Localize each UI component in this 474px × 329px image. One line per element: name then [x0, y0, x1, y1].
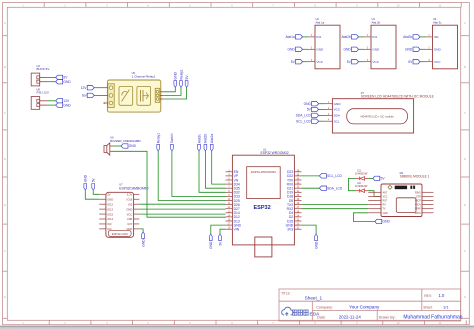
svg-text:F: F — [4, 249, 6, 253]
wire GND port below ESP32 right — [302, 225, 317, 234]
svg-text:IO0: IO0 — [128, 202, 133, 206]
svg-text:5V: 5V — [107, 193, 110, 197]
svg-text:GND: GND — [434, 48, 442, 52]
net flag SCL_LCD at LCD — [312, 119, 319, 123]
svg-text:1N4002W: 1N4002W — [355, 184, 368, 188]
svg-text:B: B — [464, 65, 466, 69]
wire CAM GND down to port — [139, 229, 143, 232]
net flag GND at LCD — [312, 102, 319, 106]
svg-text:SIM800L MODULE 1: SIM800L MODULE 1 — [400, 175, 430, 179]
svg-text:GND: GND — [316, 48, 324, 52]
SIM800 pins — [368, 191, 381, 193]
wire Alat3c to D32 — [199, 151, 226, 192]
wire — [420, 61, 426, 63]
svg-text:SPKN: SPKN — [415, 213, 422, 215]
svg-text:Drawn By:: Drawn By: — [379, 315, 396, 319]
svg-text:GND: GND — [84, 174, 88, 182]
wire RX2 to SIM800 TX — [302, 208, 369, 210]
svg-text:GND: GND — [129, 144, 137, 148]
wire D21 to SDA_LCD — [302, 187, 320, 189]
svg-text:RX: RX — [383, 205, 387, 207]
svg-text:Relay1: Relay1 — [179, 69, 183, 79]
net flag Sol — [87, 93, 94, 97]
svg-text:Alat3c: Alat3c — [197, 134, 201, 144]
net flag SDA_LCD at LCD — [312, 113, 319, 117]
svg-text:GND: GND — [63, 103, 71, 107]
relay coil symbol box — [119, 86, 133, 105]
EasyEDA logo — [282, 307, 294, 316]
SIM800 chip — [395, 186, 407, 190]
wire — [359, 61, 365, 63]
wire — [420, 48, 426, 50]
svg-text:GND: GND — [383, 213, 388, 215]
net port 5V above relay — [185, 81, 188, 88]
svg-text:GND: GND — [343, 48, 351, 52]
svg-text:Sol: Sol — [82, 94, 87, 98]
svg-text:ESP32-CAM: ESP32-CAM — [112, 232, 129, 236]
svg-text:IN1: IN1 — [434, 35, 439, 39]
svg-text:VCC: VCC — [127, 212, 133, 216]
wire Sol to relay — [94, 94, 104, 96]
svg-text:EDA: EDA — [310, 311, 321, 316]
svg-text:2022-11-24: 2022-11-24 — [339, 315, 362, 320]
svg-text:MICP: MICP — [415, 201, 421, 203]
svg-text:3V3: 3V3 — [287, 228, 293, 232]
net flag Alat2b — [352, 35, 359, 39]
LCD pins — [326, 103, 333, 105]
svg-text:SPKP: SPKP — [415, 209, 422, 211]
svg-text:SCL_LCD: SCL_LCD — [296, 119, 311, 123]
relay right pins — [160, 91, 163, 93]
net flag GND — [296, 47, 303, 51]
svg-text:Alat2b: Alat2b — [341, 35, 351, 39]
svg-text:RST: RST — [383, 201, 388, 203]
relay left pin header — [108, 84, 114, 108]
frame row ticks left/right — [3, 35, 8, 37]
svg-text:11: 11 — [439, 321, 442, 325]
wire relay GND — [163, 87, 175, 92]
net flag GND — [56, 80, 63, 84]
svg-text:1.0: 1.0 — [439, 293, 445, 298]
net flag 5V — [413, 60, 420, 64]
wire LCD SCL — [319, 120, 326, 122]
net port 5V above CAM — [92, 184, 95, 191]
SIM800 antenna diamond — [388, 185, 392, 189]
svg-text:1N4002W: 1N4002W — [355, 172, 368, 176]
wire relay 5V — [163, 87, 187, 99]
svg-text:Alat1a: Alat1a — [210, 134, 214, 144]
svg-text:B: B — [4, 65, 6, 69]
svg-text:G: G — [4, 295, 6, 299]
svg-text:Alat2b: Alat2b — [204, 134, 208, 144]
ESP32-CAM bottom label — [108, 230, 131, 236]
svg-text:BUCK 5V: BUCK 5V — [37, 67, 50, 71]
net port 5V below ESP32 left — [219, 234, 222, 241]
svg-text:GND: GND — [372, 48, 380, 52]
pin 3 VCC — [364, 61, 371, 63]
net flag GND — [352, 47, 359, 51]
wire — [303, 61, 309, 63]
net flag 5V — [56, 75, 63, 79]
net port GND below CAM — [142, 232, 145, 239]
svg-text:TX: TX — [383, 209, 386, 211]
svg-text:11: 11 — [439, 3, 442, 7]
net port GND above relay — [174, 81, 177, 88]
net flag Alat3c — [413, 35, 420, 39]
buzzer speaker symbol — [104, 146, 107, 153]
svg-text:C: C — [4, 111, 6, 115]
svg-text:Alat3c: Alat3c — [403, 35, 413, 39]
svg-text:GND: GND — [334, 102, 342, 106]
wire Alat2b to D35 — [205, 151, 225, 188]
svg-text:VCC: VCC — [316, 60, 323, 64]
svg-text:IO12: IO12 — [107, 202, 113, 206]
net flag GND at SIM800 — [375, 219, 382, 223]
svg-text:HD44780 LCD + I2C module: HD44780 LCD + I2C module — [361, 114, 395, 118]
net flag GND — [413, 47, 420, 51]
svg-text:PSU 12V: PSU 12V — [37, 91, 49, 95]
svg-text:GND: GND — [304, 102, 312, 106]
svg-text:SDA: SDA — [334, 114, 341, 118]
wire 5V port to CAM pin 5V — [93, 190, 99, 194]
wire D22 to SCL_LCD — [302, 175, 320, 177]
svg-text:D: D — [4, 157, 6, 161]
wire CAM GND to ESP32 D27 — [139, 208, 225, 210]
svg-text:12V: 12V — [81, 86, 88, 90]
svg-text:GND: GND — [209, 241, 213, 249]
svg-text:Company:: Company: — [316, 305, 333, 309]
svg-text:3.3V: 3.3V — [127, 193, 133, 197]
svg-text:RING: RING — [415, 192, 421, 194]
pin 3 VCC — [426, 61, 433, 63]
svg-text:GND: GND — [126, 207, 132, 211]
pin 1 IN1 — [364, 36, 371, 38]
svg-text:ESP32 WROOM32: ESP32 WROOM32 — [261, 151, 289, 155]
wire SIM800 GND to flag — [353, 213, 374, 222]
svg-text:REV:: REV: — [424, 294, 432, 298]
svg-text:VCC: VCC — [372, 60, 379, 64]
svg-text:F: F — [464, 249, 466, 253]
svg-text:IO15: IO15 — [107, 212, 113, 216]
svg-text:GND: GND — [174, 72, 178, 80]
SIM800 shield box — [396, 198, 416, 213]
net flag 5V at D1 — [373, 176, 380, 180]
svg-text:E: E — [4, 203, 6, 207]
relay left pins — [105, 87, 108, 89]
net port Alat1a (mid) — [210, 144, 213, 151]
svg-text:MICN: MICN — [415, 205, 421, 207]
svg-text:ESP32CAMBOARD: ESP32CAMBOARD — [119, 186, 149, 190]
relay right pin header — [155, 88, 160, 102]
svg-text:IO2: IO2 — [107, 222, 112, 226]
svg-text:GND: GND — [287, 48, 295, 52]
svg-text:10: 10 — [396, 3, 400, 7]
wire LCD SDA — [319, 114, 326, 116]
ESP32-CAM pins and names — [99, 193, 106, 195]
svg-text:IN1: IN1 — [372, 35, 377, 39]
net port Relay1 above relay — [180, 81, 183, 88]
wire TX2 to SIM800 RX — [302, 204, 369, 206]
svg-text:1/1: 1/1 — [443, 305, 449, 310]
svg-text:IO13: IO13 — [107, 207, 113, 211]
wire buzzer signal to ESP32 D12 — [113, 151, 226, 217]
wire relay Relay1 — [163, 87, 181, 95]
ESP32 pins right — [294, 171, 301, 173]
wire LCD GND — [319, 103, 326, 105]
net flag SCL_LCD — [319, 174, 326, 178]
net port GND below ESP32 right — [315, 234, 318, 241]
net flag 5V at LCD — [312, 107, 319, 111]
wire D1 to D2 — [349, 178, 356, 190]
wire 5V port to VIN — [220, 229, 226, 234]
svg-text:SDA_LCD: SDA_LCD — [327, 186, 343, 190]
wire 12V to relay — [94, 87, 104, 89]
svg-text:Alat 3c: Alat 3c — [433, 20, 442, 24]
wire — [359, 36, 365, 38]
svg-text:IO14: IO14 — [107, 217, 113, 221]
svg-text:Sheet:: Sheet: — [423, 305, 433, 309]
net flag Alat1a — [296, 35, 303, 39]
svg-text:DTR: DTR — [416, 196, 421, 198]
pin 1 IN1 — [426, 36, 433, 38]
svg-text:GND: GND — [314, 241, 318, 249]
svg-text:Your Company: Your Company — [349, 305, 380, 310]
svg-text:IO16: IO16 — [126, 197, 132, 201]
svg-text:VIN: VIN — [234, 228, 240, 232]
net port Relay1 (mid) — [157, 144, 160, 151]
title block — [279, 289, 461, 321]
svg-text:TITLE:: TITLE: — [281, 291, 291, 295]
svg-text:VCC: VCC — [334, 108, 341, 112]
wire GND port below ESP32 left — [211, 225, 226, 234]
svg-text:ESP32-WROOM32: ESP32-WROOM32 — [251, 170, 276, 174]
svg-text:G: G — [464, 295, 466, 299]
buzzer pins — [110, 145, 113, 147]
wire CAM IO0 to ESP32 D26 — [139, 203, 225, 205]
pin 1 IN1 — [308, 36, 315, 38]
svg-text:A: A — [4, 21, 6, 25]
pin 2 GND — [364, 48, 371, 50]
svg-text:IN1: IN1 — [316, 35, 321, 39]
net port Switch (mid) — [171, 144, 174, 151]
wire Relay1 to D25 — [158, 151, 225, 201]
svg-text:VCC: VCC — [434, 60, 441, 64]
wire LCD VCC — [319, 109, 326, 111]
svg-text:U0T: U0T — [127, 222, 132, 226]
svg-text:Alat1a: Alat1a — [285, 35, 295, 39]
svg-text:GND: GND — [383, 220, 391, 224]
svg-text:GND: GND — [405, 48, 413, 52]
svg-text:Alat 1a: Alat 1a — [316, 20, 325, 24]
net flag GND at buzzer — [121, 144, 128, 148]
wire CAM VCC to ESP32 D14 — [139, 213, 225, 215]
net port GND below ESP32 left — [209, 234, 212, 241]
wire Switch to D33 — [172, 151, 226, 196]
LCD inner rounded box — [347, 109, 408, 124]
wire Alat1a to D34 — [212, 151, 226, 184]
svg-text:SCL_LCD: SCL_LCD — [327, 174, 342, 178]
net port Alat2b (mid) — [204, 144, 207, 151]
ESP32 pins left — [226, 171, 233, 173]
svg-text:SCREEN LCD HD44780LCD WITH I2C: SCREEN LCD HD44780LCD WITH I2C MODULE — [361, 95, 435, 99]
svg-text:C: C — [464, 111, 466, 115]
ESP32 antenna stub box — [255, 237, 272, 257]
wire — [47, 100, 55, 102]
wire GND port to CAM pin GND — [85, 190, 99, 199]
svg-text:E: E — [464, 203, 466, 207]
net flag 12V — [56, 99, 63, 103]
wire — [359, 48, 365, 50]
pin 2 GND — [308, 48, 315, 50]
wire D2 to SIM800 VCC — [368, 191, 381, 197]
svg-text:GND: GND — [107, 197, 113, 201]
wire — [47, 76, 55, 78]
svg-text:10: 10 — [396, 321, 400, 325]
svg-text:D: D — [464, 157, 466, 161]
svg-text:ANT: ANT — [383, 191, 388, 194]
frame column ticks top/bottom — [43, 3, 45, 8]
net port GND above CAM — [84, 184, 87, 191]
svg-text:Switch: Switch — [170, 133, 174, 143]
svg-text:GND: GND — [63, 80, 71, 84]
net flag SDA_LCD — [319, 186, 326, 190]
svg-text:Relay1: Relay1 — [157, 133, 161, 143]
svg-text:SCL: SCL — [334, 119, 340, 123]
pin 3 VCC — [308, 61, 315, 63]
svg-text:1 Channel Relay1: 1 Channel Relay1 — [132, 74, 156, 78]
ESP32 inner module outline — [247, 167, 281, 199]
wire — [303, 36, 309, 38]
net port Alat3c (mid) — [198, 144, 201, 151]
svg-text:VCC: VCC — [383, 196, 388, 198]
svg-text:Muhammad Fathurrahman: Muhammad Fathurrahman — [403, 315, 462, 321]
svg-text:ESP32: ESP32 — [254, 205, 271, 211]
svg-text:SDA_LCD: SDA_LCD — [296, 114, 312, 118]
svg-text:Alat 2b: Alat 2b — [372, 20, 381, 24]
svg-text:BUZZER_C9900021884: BUZZER_C9900021884 — [110, 139, 141, 143]
SIM800 small parts — [410, 186, 412, 189]
svg-text:U0R: U0R — [127, 217, 132, 221]
svg-text:Sheet_1: Sheet_1 — [305, 296, 323, 301]
pin 2 GND — [426, 48, 433, 50]
wire 5V flag to D1 — [368, 177, 373, 179]
net flag 5V — [296, 60, 303, 64]
relay contact symbol box — [137, 86, 151, 105]
wire — [303, 48, 309, 50]
wire — [420, 36, 426, 38]
net flag GND — [56, 103, 63, 107]
net flag 12V — [87, 86, 94, 90]
svg-text:GND: GND — [141, 239, 145, 247]
net flag 5V — [352, 60, 359, 64]
window bottom shadow strip — [0, 326, 474, 328]
wire buzzer GND — [113, 145, 122, 147]
svg-text:A: A — [464, 21, 466, 25]
